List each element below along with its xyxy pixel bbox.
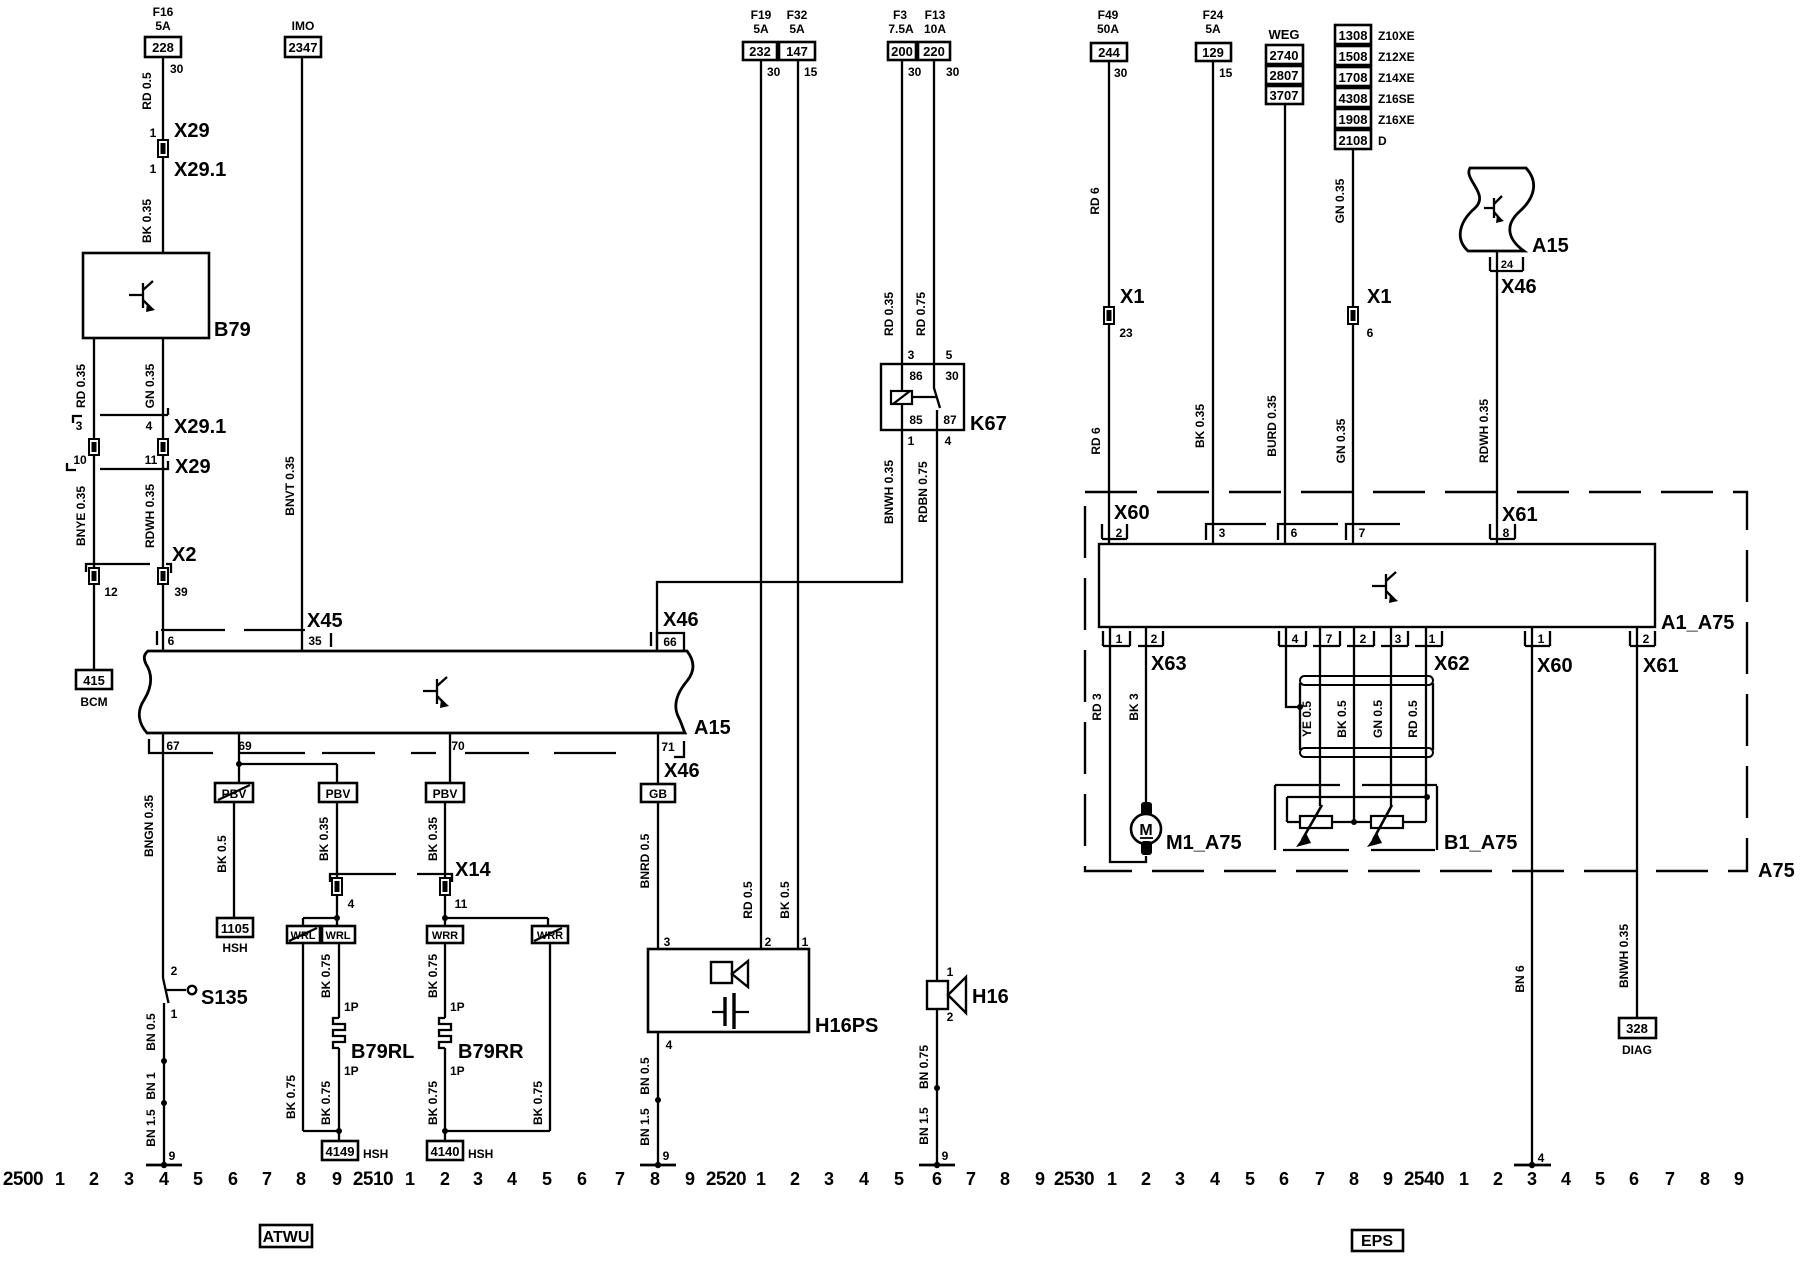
pin 1 X63 (bottom) (1103, 631, 1130, 646)
svg-text:2530: 2530 (1054, 1169, 1094, 1190)
svg-text:YE 0.5: YE 0.5 (1300, 701, 1314, 737)
svg-text:9: 9 (1035, 1169, 1045, 1189)
svg-text:X1: X1 (1367, 286, 1391, 308)
svg-text:Z10XE: Z10XE (1378, 29, 1415, 43)
svg-text:11: 11 (145, 453, 158, 467)
svg-text:2: 2 (171, 964, 178, 978)
svg-text:328: 328 (1626, 1021, 1648, 1036)
svg-text:4: 4 (666, 1038, 673, 1052)
svg-text:X46: X46 (663, 609, 699, 631)
wire GN 0.35 upper (1333, 149, 1353, 307)
svg-text:1: 1 (1538, 632, 1545, 646)
shield symbol around sensor wires (1300, 676, 1433, 757)
svg-text:5A: 5A (155, 19, 171, 33)
fuse F24 5A (1196, 8, 1233, 80)
relay K67 (881, 348, 1007, 448)
svg-text:X45: X45 (307, 610, 343, 632)
svg-text:200: 200 (891, 44, 913, 59)
svg-text:2: 2 (1151, 632, 1158, 646)
svg-text:87: 87 (943, 413, 957, 427)
connector X14 pin 11 (417, 859, 491, 911)
svg-text:2740: 2740 (1270, 48, 1299, 63)
junction to WRL boxes (303, 895, 340, 926)
connector X29 pins 10 and 11 (67, 453, 211, 478)
svg-text:2: 2 (1116, 526, 1123, 540)
wire RD 3 (1090, 627, 1146, 862)
svg-text:50A: 50A (1097, 22, 1119, 36)
svg-text:30: 30 (767, 65, 781, 79)
svg-text:X46: X46 (1501, 276, 1537, 298)
wire BNYE 0.35 (74, 455, 94, 568)
svg-text:4: 4 (1538, 1151, 1545, 1165)
wire BN 0.5 / BN 1 / BN 1.5 to ground (144, 1003, 167, 1165)
connector X2 pins 12 and 39 (86, 544, 196, 599)
svg-text:RDWH 0.35: RDWH 0.35 (143, 484, 157, 548)
svg-text:1: 1 (947, 965, 954, 979)
svg-text:IMO: IMO (292, 19, 315, 33)
svg-text:129: 129 (1202, 45, 1224, 60)
svg-text:7: 7 (966, 1169, 976, 1189)
switch S135 (163, 964, 248, 1021)
svg-text:2500: 2500 (3, 1169, 43, 1190)
svg-text:5A: 5A (1205, 22, 1221, 36)
svg-text:X2: X2 (172, 544, 196, 566)
svg-text:WRR: WRR (432, 930, 458, 942)
svg-text:8: 8 (1349, 1169, 1359, 1189)
connector X29 / X29.1 pin 1 (150, 140, 227, 181)
svg-text:3: 3 (1395, 632, 1402, 646)
svg-text:2: 2 (1643, 632, 1650, 646)
svg-text:BK 0.75: BK 0.75 (319, 954, 333, 998)
svg-text:1: 1 (908, 434, 915, 448)
wire RDWH 0.35 to A75 X61 pin 8 (1477, 251, 1497, 544)
pin 2 X60 (top) (1102, 502, 1150, 540)
svg-text:RD 6: RD 6 (1088, 187, 1102, 215)
svg-text:85: 85 (909, 413, 923, 427)
fuse F19 5A (743, 8, 781, 79)
svg-text:Z14XE: Z14XE (1378, 71, 1415, 85)
svg-text:3: 3 (1527, 1169, 1537, 1189)
node 1508 Z12XE (1335, 46, 1415, 65)
svg-text:2540: 2540 (1404, 1169, 1444, 1190)
svg-text:BK 0.35: BK 0.35 (1193, 404, 1207, 448)
svg-text:2807: 2807 (1270, 68, 1299, 83)
svg-text:9: 9 (332, 1169, 342, 1189)
shield drain from pin 4 (1286, 627, 1303, 710)
svg-text:A15: A15 (1532, 235, 1569, 257)
svg-text:X60: X60 (1537, 655, 1573, 677)
node 1105 HSH (217, 918, 253, 955)
svg-text:1: 1 (150, 126, 157, 140)
svg-text:S135: S135 (201, 987, 248, 1009)
svg-text:PBV: PBV (433, 787, 458, 801)
svg-text:3707: 3707 (1270, 88, 1299, 103)
svg-text:BK 0.75: BK 0.75 (426, 954, 440, 998)
svg-text:F49: F49 (1098, 8, 1119, 22)
connector line X45/X46 above A15 (161, 629, 305, 631)
pin 2 X61 (bottom right) (1630, 631, 1679, 677)
svg-text:1: 1 (1107, 1169, 1117, 1189)
pin 71 of A15 / X46 (661, 740, 699, 782)
svg-text:Z12XE: Z12XE (1378, 50, 1415, 64)
node IMO 2347 (285, 19, 321, 57)
svg-text:9: 9 (169, 1149, 176, 1163)
horn H16 (927, 965, 1009, 1024)
svg-text:X29.1: X29.1 (174, 159, 226, 181)
svg-text:BK 0.35: BK 0.35 (140, 199, 154, 243)
ground at 2510/8 (640, 1149, 676, 1168)
svg-text:BK 0.35: BK 0.35 (426, 817, 440, 861)
svg-text:4: 4 (507, 1169, 517, 1189)
wire RD 0.75 from F13 to K67 (914, 60, 934, 364)
svg-text:BK 0.75: BK 0.75 (531, 1081, 545, 1125)
svg-text:5: 5 (1595, 1169, 1605, 1189)
fuse F16 5A (145, 5, 184, 76)
svg-text:F32: F32 (787, 8, 808, 22)
svg-text:1: 1 (171, 1007, 178, 1021)
svg-text:BN 1.5: BN 1.5 (917, 1107, 931, 1145)
svg-text:BNYE 0.35: BNYE 0.35 (74, 486, 88, 546)
svg-text:RD 0.5: RD 0.5 (1406, 700, 1420, 738)
svg-text:147: 147 (786, 44, 808, 59)
svg-text:232: 232 (749, 44, 771, 59)
svg-text:RDWH 0.35: RDWH 0.35 (1477, 399, 1491, 463)
wire BN 6 to ground (1513, 627, 1532, 1165)
svg-text:2: 2 (947, 1010, 954, 1024)
control unit A1_A75 (1099, 544, 1734, 634)
svg-text:9: 9 (685, 1169, 695, 1189)
svg-text:4140: 4140 (431, 1144, 460, 1159)
svg-text:1P: 1P (450, 1064, 465, 1078)
wire from pin 69 with junction (236, 733, 337, 783)
svg-text:RD 0.75: RD 0.75 (914, 292, 928, 336)
svg-text:6: 6 (577, 1169, 587, 1189)
fuse F49 50A (1091, 8, 1128, 80)
svg-text:2: 2 (1141, 1169, 1151, 1189)
svg-text:86: 86 (909, 369, 923, 383)
svg-text:5: 5 (193, 1169, 203, 1189)
svg-text:6: 6 (1629, 1169, 1639, 1189)
svg-text:3: 3 (824, 1169, 834, 1189)
svg-text:BK 0.35: BK 0.35 (317, 817, 331, 861)
svg-text:23: 23 (1119, 326, 1133, 340)
wire BK 0.35 to A1_A75 pin 3 (1193, 61, 1213, 544)
svg-text:1P: 1P (344, 1000, 359, 1014)
svg-text:BK 0.75: BK 0.75 (284, 1075, 298, 1119)
heater element B79RR (1P) (426, 943, 550, 1141)
wire BNWH 0.35 from K67 pin 1 to A15 pin 66 (657, 430, 902, 651)
node 4140 HSH (427, 1141, 493, 1161)
svg-text:RD 6: RD 6 (1089, 427, 1103, 455)
svg-text:5: 5 (1245, 1169, 1255, 1189)
wire from pin 71 to GB (657, 733, 659, 784)
pin 70 of A15 (451, 739, 465, 753)
sensor B1_A75 (1275, 785, 1517, 854)
svg-text:30: 30 (1114, 66, 1128, 80)
svg-text:8: 8 (650, 1169, 660, 1189)
svg-text:220: 220 (923, 44, 945, 59)
svg-text:RD 0.35: RD 0.35 (882, 292, 896, 336)
svg-text:7: 7 (615, 1169, 625, 1189)
svg-text:1: 1 (405, 1169, 415, 1189)
svg-text:3: 3 (1219, 526, 1226, 540)
node 1908 Z16XE (1335, 109, 1415, 128)
svg-text:3: 3 (908, 348, 915, 362)
svg-text:2: 2 (765, 935, 772, 949)
svg-text:B79: B79 (214, 319, 251, 341)
svg-text:X63: X63 (1151, 653, 1187, 675)
svg-text:35: 35 (308, 634, 322, 648)
svg-text:K67: K67 (970, 413, 1007, 435)
svg-text:BURD 0.35: BURD 0.35 (1265, 395, 1279, 457)
wire RD 6 upper (1088, 61, 1109, 307)
svg-text:12: 12 (104, 585, 118, 599)
svg-text:7: 7 (1665, 1169, 1675, 1189)
svg-text:X61: X61 (1502, 504, 1538, 526)
svg-text:X61: X61 (1643, 655, 1679, 677)
node 328 DIAG (1619, 1018, 1656, 1057)
svg-text:GN 0.35: GN 0.35 (1333, 178, 1347, 223)
svg-text:1308: 1308 (1339, 28, 1368, 43)
svg-text:BK 0.5: BK 0.5 (1335, 700, 1349, 738)
pin 66 of A15 / X46 (651, 609, 699, 651)
pin 6 (top) (1278, 524, 1338, 540)
svg-text:7: 7 (1315, 1169, 1325, 1189)
svg-text:2108: 2108 (1339, 133, 1368, 148)
wire RDWH to A15 pin 6 (162, 584, 164, 651)
svg-text:X29: X29 (174, 120, 210, 142)
pin 35 of A15 / X45 (307, 610, 343, 648)
svg-text:70: 70 (451, 739, 465, 753)
fuse F32 5A (779, 8, 818, 79)
svg-text:9: 9 (1383, 1169, 1393, 1189)
svg-text:7: 7 (1359, 526, 1366, 540)
svg-text:F24: F24 (1203, 8, 1224, 22)
svg-text:69: 69 (238, 739, 252, 753)
svg-text:X14: X14 (455, 859, 491, 881)
svg-text:B79RR: B79RR (458, 1041, 524, 1063)
svg-text:HSH: HSH (222, 941, 247, 955)
svg-text:BNRD 0.5: BNRD 0.5 (638, 833, 652, 888)
svg-text:BN 0.5: BN 0.5 (144, 1013, 158, 1051)
svg-text:BN 1.5: BN 1.5 (638, 1108, 652, 1146)
buzzer B79 (83, 253, 251, 341)
svg-text:5A: 5A (753, 22, 769, 36)
ground at 2520/6 (919, 1149, 955, 1168)
pin 3 (top) (1206, 524, 1266, 540)
wire BK 0.75 right of B79RR (531, 943, 550, 1131)
svg-text:BN 1.5: BN 1.5 (144, 1109, 158, 1147)
svg-text:6: 6 (1367, 326, 1374, 340)
svg-text:244: 244 (1098, 45, 1120, 60)
svg-text:BK 0.75: BK 0.75 (426, 1081, 440, 1125)
pin 6 of A15 (157, 631, 175, 648)
svg-text:7.5A: 7.5A (888, 22, 914, 36)
svg-text:67: 67 (166, 739, 180, 753)
valve WRL (slashed) (287, 926, 320, 943)
svg-text:10A: 10A (924, 22, 946, 36)
wire BK 0.5 from F32 to H16PS pin 1 (778, 60, 798, 949)
svg-text:BK 0.5: BK 0.5 (215, 835, 229, 873)
junction to WRR boxes (442, 895, 548, 926)
heater element B79RL (1P) (303, 943, 414, 1141)
svg-text:2: 2 (790, 1169, 800, 1189)
wire RDBN 0.75 from K67 pin 4 to H16 (916, 430, 937, 981)
svg-text:1: 1 (55, 1169, 65, 1189)
svg-text:A75: A75 (1758, 860, 1795, 882)
svg-text:GN 0.35: GN 0.35 (143, 363, 157, 408)
svg-text:6: 6 (228, 1169, 238, 1189)
wire BN 0.75 / BN 1.5 from H16 to ground (917, 1009, 940, 1165)
svg-text:1508: 1508 (1339, 49, 1368, 64)
svg-text:RD 0.5: RD 0.5 (140, 72, 154, 110)
svg-text:X29.1: X29.1 (174, 416, 226, 438)
node 2108 D (1335, 130, 1387, 149)
svg-text:3: 3 (1175, 1169, 1185, 1189)
wire RD 0.5 from F19 to H16PS pin 2 (741, 60, 761, 949)
svg-text:2: 2 (1493, 1169, 1503, 1189)
svg-text:ATWU: ATWU (263, 1229, 310, 1246)
pin 69 of A15 (238, 739, 252, 753)
svg-text:6: 6 (168, 634, 175, 648)
svg-text:HSH: HSH (363, 1147, 388, 1161)
svg-text:4: 4 (159, 1169, 169, 1189)
wire to BCM (93, 584, 95, 670)
svg-text:2510: 2510 (353, 1169, 393, 1190)
svg-text:RD 0.35: RD 0.35 (74, 364, 88, 408)
svg-text:1: 1 (802, 935, 809, 949)
svg-text:1P: 1P (450, 1000, 465, 1014)
svg-text:H16: H16 (972, 986, 1009, 1008)
svg-text:9: 9 (1734, 1169, 1744, 1189)
fuse F3 7.5A (888, 8, 922, 79)
svg-text:7: 7 (262, 1169, 272, 1189)
svg-text:X1: X1 (1120, 286, 1144, 308)
svg-text:8: 8 (1700, 1169, 1710, 1189)
node GB (641, 784, 675, 802)
svg-text:2347: 2347 (289, 40, 318, 55)
coordinate ruler (3, 1169, 1744, 1190)
valve WRR (427, 926, 463, 943)
wire GN 0.5 (1371, 627, 1391, 806)
ground at 2500/4 (146, 1149, 182, 1168)
svg-text:1P: 1P (344, 1064, 359, 1078)
wire BK 3 (1127, 627, 1146, 803)
wire BN 0.5 / BN 1.5 from H16PS pin 4 to ground (638, 1032, 673, 1165)
svg-text:39: 39 (174, 585, 188, 599)
pins 4 7 2 3 1 X62 (bottom) (1279, 631, 1470, 675)
svg-text:5: 5 (894, 1169, 904, 1189)
svg-text:EPS: EPS (1361, 1233, 1393, 1250)
svg-text:B79RL: B79RL (351, 1041, 414, 1063)
svg-text:66: 66 (663, 635, 677, 649)
svg-text:BK 3: BK 3 (1127, 693, 1141, 721)
svg-text:BNWH 0.35: BNWH 0.35 (882, 460, 896, 524)
svg-text:3: 3 (124, 1169, 134, 1189)
svg-text:30: 30 (908, 65, 922, 79)
svg-text:X62: X62 (1434, 653, 1470, 675)
valve WRL (322, 926, 355, 943)
svg-text:7: 7 (1326, 632, 1333, 646)
svg-text:71: 71 (661, 740, 675, 754)
svg-text:10: 10 (73, 453, 87, 467)
svg-text:1908: 1908 (1339, 112, 1368, 127)
pin 8 X61 (top) (1490, 504, 1538, 540)
wire RD 6 lower to A75 X60 pin 2 (1089, 324, 1109, 544)
motor M1_A75 (1131, 802, 1242, 855)
svg-text:X60: X60 (1114, 502, 1150, 524)
svg-text:8: 8 (1000, 1169, 1010, 1189)
svg-text:2: 2 (89, 1169, 99, 1189)
wire RD 0.35 from F3 to K67 (882, 60, 902, 364)
svg-text:Z16SE: Z16SE (1378, 92, 1415, 106)
valve PBV (slashed) (215, 783, 253, 802)
svg-text:2: 2 (1360, 632, 1367, 646)
svg-text:4: 4 (1561, 1169, 1571, 1189)
svg-text:BN 1: BN 1 (144, 1072, 158, 1100)
pin 2 X63 (bottom) (1138, 631, 1187, 675)
connector X1 pin 6 (1348, 286, 1391, 340)
svg-text:BNVT 0.35: BNVT 0.35 (283, 456, 297, 516)
wire BK 0.5 (1335, 627, 1354, 822)
svg-text:BN 0.75: BN 0.75 (917, 1045, 931, 1089)
svg-text:F16: F16 (153, 5, 174, 19)
svg-text:RDBN 0.75: RDBN 0.75 (916, 461, 930, 523)
svg-text:F13: F13 (925, 8, 946, 22)
pin 7 (top) (1346, 524, 1400, 540)
svg-text:1: 1 (1429, 632, 1436, 646)
svg-text:8: 8 (1503, 526, 1510, 540)
harness label EPS (1352, 1230, 1403, 1251)
svg-text:4: 4 (1292, 632, 1299, 646)
svg-text:GN 0.35: GN 0.35 (1334, 418, 1348, 463)
svg-text:D: D (1378, 134, 1387, 148)
fuse F13 10A (918, 8, 960, 79)
svg-text:4: 4 (1210, 1169, 1220, 1189)
wire YE 0.5 (1300, 627, 1320, 806)
wire RDWH 0.35 (143, 455, 163, 568)
svg-text:9: 9 (942, 1149, 949, 1163)
svg-text:3: 3 (664, 935, 671, 949)
svg-text:30: 30 (946, 65, 960, 79)
svg-text:1105: 1105 (221, 921, 249, 936)
svg-text:PBV: PBV (326, 787, 351, 801)
svg-text:H16PS: H16PS (815, 1015, 878, 1037)
harness label ATWU (260, 1225, 312, 1247)
wire BNVT 0.35 from IMO to A15 pin 35 (283, 57, 302, 651)
svg-text:GN 0.5: GN 0.5 (1371, 700, 1385, 738)
svg-text:WRR: WRR (537, 930, 563, 942)
svg-text:WRL: WRL (290, 930, 315, 942)
svg-text:1: 1 (150, 162, 157, 176)
wire RD 0.5 from F16 to X29 (140, 57, 210, 142)
assembly A75 dashed boundary (1085, 492, 1795, 882)
svg-text:15: 15 (804, 65, 818, 79)
svg-text:6: 6 (932, 1169, 942, 1189)
svg-text:8: 8 (296, 1169, 306, 1189)
valve WRR (slashed) (532, 926, 568, 943)
svg-text:BK 0.75: BK 0.75 (319, 1081, 333, 1125)
node 4308 Z16SE (1335, 88, 1415, 107)
svg-text:228: 228 (152, 40, 174, 55)
connector line X46 below A15 (dashed) (239, 752, 616, 754)
wire RD 0.5 (1406, 627, 1426, 797)
wire BK 0.35 to B79 (140, 157, 163, 253)
svg-text:9: 9 (663, 1149, 670, 1163)
svg-text:2: 2 (440, 1169, 450, 1189)
svg-text:X46: X46 (664, 760, 700, 782)
svg-text:F3: F3 (893, 8, 907, 22)
